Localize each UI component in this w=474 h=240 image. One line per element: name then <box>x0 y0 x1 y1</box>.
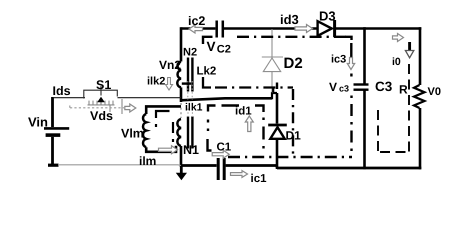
arrow ic2 (left) <box>189 25 203 33</box>
inductor Lm branch <box>146 106 181 114</box>
svg-text:C3: C3 <box>375 79 393 94</box>
arrow ic3 (down) <box>347 58 354 70</box>
svg-text:V0: V0 <box>428 86 441 98</box>
wire bottom right <box>277 167 421 170</box>
wire thin bottom return <box>58 164 181 167</box>
wire secondary link <box>180 98 272 100</box>
winding N1 <box>177 119 181 146</box>
svg-text:ic3: ic3 <box>331 54 346 66</box>
svg-text:R: R <box>399 83 408 97</box>
switch S1 mosfet <box>84 86 118 105</box>
svg-text:Lk2: Lk2 <box>197 66 217 78</box>
svg-text:ic2: ic2 <box>188 14 205 28</box>
svg-text:Vin: Vin <box>28 115 48 130</box>
arrow C1 (right) <box>212 150 229 158</box>
loop corner near D2 <box>272 88 274 93</box>
loop dash above D1 <box>276 83 278 90</box>
core bars N2 <box>188 58 192 92</box>
wire bottom mid <box>180 164 217 167</box>
wire thin S1 row <box>53 97 181 99</box>
i0 arrow head <box>405 51 413 58</box>
svg-text:S1: S1 <box>96 78 111 92</box>
dashed Vds line <box>70 106 124 111</box>
svg-text:ilm: ilm <box>139 154 156 168</box>
ground <box>176 166 187 180</box>
battery Vin <box>44 97 69 165</box>
svg-text:id3: id3 <box>280 12 299 27</box>
arrow ilm (right) <box>159 146 178 154</box>
svg-text:N1: N1 <box>183 143 199 157</box>
svg-text:C1: C1 <box>217 142 232 154</box>
arrow id3 (right) <box>295 25 313 33</box>
core bars N1 <box>188 117 192 149</box>
loop mid horizontal dashdot <box>215 86 293 88</box>
loop i0 dashed <box>378 64 409 152</box>
svg-text:id1: id1 <box>235 106 252 118</box>
wire right vertical <box>419 27 422 85</box>
capacitor C1 <box>218 158 224 180</box>
diode D2 (thin gray) <box>262 29 283 93</box>
loop id1 left edge <box>207 120 209 123</box>
capacitor C2 <box>217 21 223 38</box>
wire jog at D1 top <box>272 93 277 99</box>
wire D1 branch <box>276 93 279 124</box>
i0 arrow shaft dash <box>408 42 411 51</box>
svg-text:D1: D1 <box>286 129 302 143</box>
transformer vertical / winding N2 <box>180 27 183 61</box>
loop ilm <box>156 111 170 118</box>
loop corner near Lk2 <box>182 82 191 84</box>
arrow Vds (right) <box>125 104 136 112</box>
loop VC2 corner <box>203 37 213 44</box>
svg-text:Vlm: Vlm <box>121 127 144 141</box>
dotted link junction to N1 <box>180 103 182 118</box>
svg-text:V: V <box>207 39 216 54</box>
diode D3 <box>318 20 335 37</box>
arrow i0 top (right) <box>393 34 404 42</box>
arrow ilk2 (down) <box>166 78 173 91</box>
svg-text:i0: i0 <box>392 56 401 68</box>
loop VC2 left dashes <box>203 77 211 88</box>
loop id1 right edge <box>262 118 264 121</box>
arrow id1 (up) <box>245 116 253 132</box>
switch S1 channel comb (gray) <box>88 99 123 114</box>
loop id1 top-left corner <box>208 106 216 112</box>
svg-text:V: V <box>329 80 337 94</box>
svg-text:N2: N2 <box>183 47 197 59</box>
wire C3 branch vertical <box>363 27 366 84</box>
loop VC2 top dashdot <box>237 36 346 38</box>
resistor R <box>414 85 425 108</box>
loop id1 top-right corner <box>255 106 264 113</box>
loop D1 left vertical dashdot <box>292 89 294 157</box>
svg-text:Vn2: Vn2 <box>159 58 181 72</box>
loop bottom dashdot y=157 <box>228 156 352 158</box>
svg-text:ilk2: ilk2 <box>147 76 165 88</box>
svg-text:ilk1: ilk1 <box>185 102 203 114</box>
wire top bus <box>182 27 422 30</box>
svg-text:Vds: Vds <box>90 109 113 123</box>
svg-text:D2: D2 <box>284 55 303 72</box>
loop id1 top dash <box>222 104 240 106</box>
svg-text:ic1: ic1 <box>251 173 268 185</box>
arrow ic1 (right) <box>231 171 248 178</box>
dotted core gap links (gray) <box>188 81 193 117</box>
diode D1 <box>268 125 287 139</box>
svg-text:Ids: Ids <box>53 84 71 98</box>
capacitor C3 <box>354 85 369 90</box>
svg-text:c3: c3 <box>339 84 349 94</box>
loop right vertical dashdot x=351 <box>345 37 352 151</box>
switch S1 arrow <box>97 97 105 103</box>
svg-text:D3: D3 <box>319 9 336 24</box>
svg-text:C2: C2 <box>217 43 231 55</box>
